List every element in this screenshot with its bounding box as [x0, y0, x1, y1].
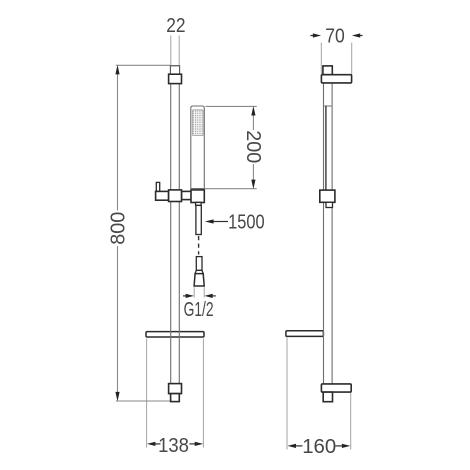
svg-text:1500: 1500 [228, 211, 265, 234]
svg-text:160: 160 [302, 435, 336, 458]
svg-text:70: 70 [325, 25, 345, 48]
svg-text:800: 800 [106, 212, 129, 245]
svg-text:G1/2: G1/2 [184, 298, 214, 321]
svg-text:200: 200 [242, 130, 265, 163]
svg-text:22: 22 [166, 14, 185, 37]
svg-text:138: 138 [158, 434, 189, 457]
